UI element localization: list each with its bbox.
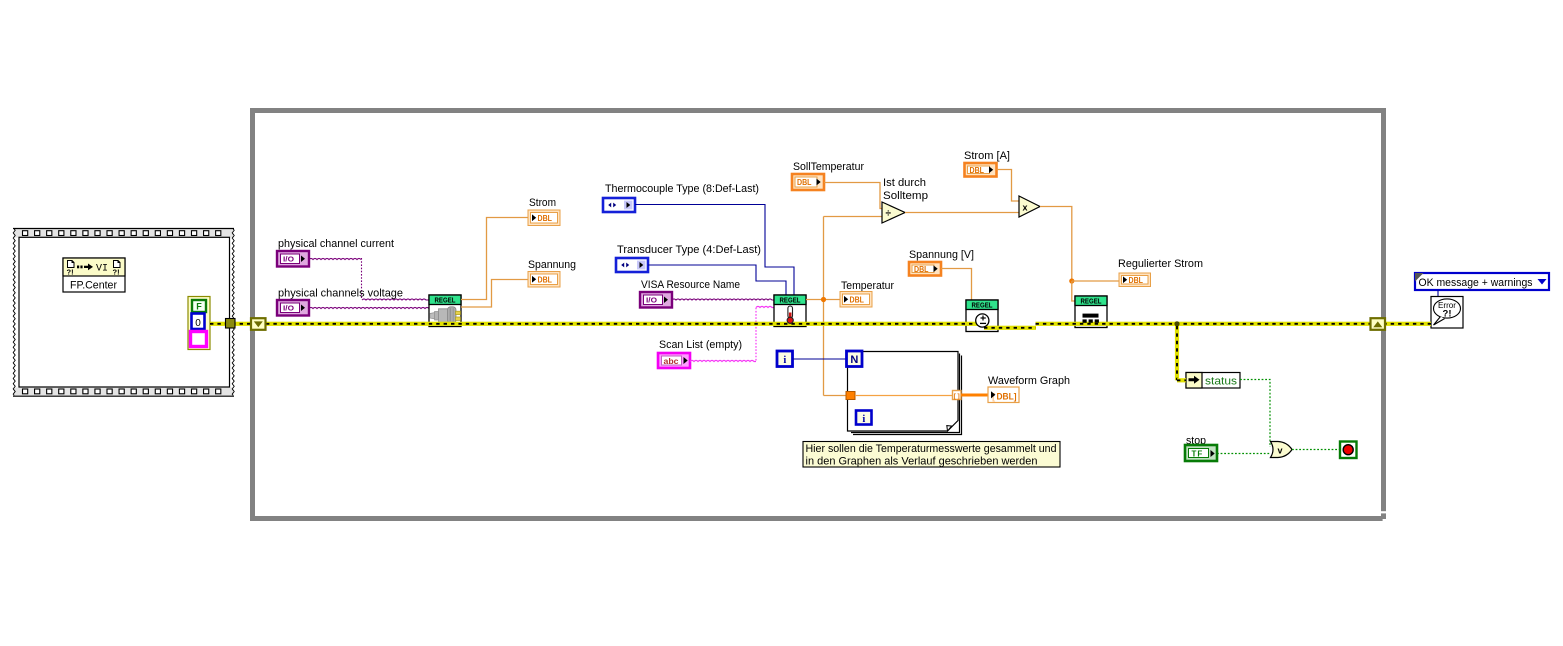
svg-text:?!: ?! xyxy=(1443,309,1452,320)
svg-text:REGEL: REGEL xyxy=(1081,297,1102,306)
error wire segment A (left SR to REGEL U5) xyxy=(266,322,985,326)
wire U4 output to Temperatur (orange) xyxy=(806,299,840,301)
svg-text:physical channels voltage: physical channels voltage xyxy=(278,288,403,300)
svg-text:VI: VI xyxy=(96,264,108,275)
wire physical channels voltage (purple wavy) xyxy=(309,307,429,308)
svg-text:Strom: Strom xyxy=(529,197,556,209)
svg-text:Hier sollen die Temperaturmess: Hier sollen die Temperaturmesswerte gesa… xyxy=(806,443,1057,455)
wire junction down to U6 (orange) xyxy=(1072,281,1075,301)
wire divide output to multiply (orange) xyxy=(905,212,1019,214)
error cluster constant (F, 0, empty string) xyxy=(188,297,210,350)
wire Scan List to U4 (pink wavy) xyxy=(690,306,774,361)
flat sequence structure (filmstrip frame) xyxy=(13,228,234,397)
svg-text:i: i xyxy=(783,355,786,366)
Or gate xyxy=(1271,442,1293,458)
svg-text:Temperatur: Temperatur xyxy=(841,280,894,292)
I/O control VISA Resource Name xyxy=(640,292,672,308)
svg-text:?!: ?! xyxy=(67,268,74,277)
enum control Thermocouple Type xyxy=(603,198,635,212)
svg-text:TF: TF xyxy=(1192,450,1204,459)
for loop count terminal N xyxy=(847,351,863,367)
wire junction to Regulierter Strom (orange) xyxy=(1072,280,1119,282)
svg-text:REGEL: REGEL xyxy=(435,296,456,305)
wire i to N (blue) xyxy=(793,358,847,360)
svg-text:DBL: DBL xyxy=(970,165,985,175)
for loop left tunnel (orange square) xyxy=(846,392,855,400)
svg-text:Ist durch: Ist durch xyxy=(883,177,926,189)
DBL indicator Spannung xyxy=(528,272,560,288)
svg-text:N: N xyxy=(850,354,858,366)
enum constant OK message + warnings xyxy=(1415,273,1549,290)
divide node xyxy=(882,202,905,223)
wire enum to error handler (blue) xyxy=(1437,290,1439,296)
svg-text:x: x xyxy=(1023,202,1028,212)
DBL indicator Temperatur xyxy=(840,292,872,308)
junction node at (823,299) xyxy=(821,297,826,302)
wire physical channel current (purple wavy) xyxy=(309,258,429,300)
subVI U4 REGEL (box) xyxy=(774,295,806,327)
while loop iteration terminal i xyxy=(777,351,793,367)
subVI U3 REGEL (plug icon) xyxy=(429,295,461,327)
subVI U6 icon (dashes) over wire xyxy=(1083,314,1099,323)
wire SollTemperatur to divide (orange) xyxy=(824,183,882,209)
svg-text:Scan List (empty): Scan List (empty) xyxy=(659,339,742,351)
svg-text:Strom [A]: Strom [A] xyxy=(964,150,1010,162)
wire Strom [A] to multiply (orange) xyxy=(997,170,1020,202)
for loop right indexing tunnel xyxy=(953,391,962,400)
svg-text:DBL: DBL xyxy=(797,177,812,187)
string control Scan List xyxy=(658,353,690,368)
wire status to Or gate (green dotted) xyxy=(1217,380,1271,454)
svg-text:Solltemp: Solltemp xyxy=(883,190,928,202)
error wire from cluster to left shift register xyxy=(210,322,253,326)
DBL control Strom [A] xyxy=(965,163,997,177)
wire VISA Resource Name to U4 (purple wavy) xyxy=(672,299,774,300)
wire Transducer Type to U4 (blue) xyxy=(648,265,786,295)
svg-text:Transducer Type (4:Def-Last): Transducer Type (4:Def-Last) xyxy=(617,244,761,256)
svg-text:REGEL: REGEL xyxy=(780,296,801,305)
enum control Transducer Type xyxy=(616,258,648,272)
svg-text:REGEL: REGEL xyxy=(972,301,993,310)
error wire branch down to unbundle xyxy=(1175,326,1179,380)
wire Or gate to loop condition terminal (green dotted) xyxy=(1292,449,1340,451)
svg-text:abc: abc xyxy=(664,357,680,366)
I/O control: physical channel current xyxy=(277,251,309,267)
subVI U4 icon (thermometer) over wire xyxy=(787,306,793,323)
property node U1 FP.Center xyxy=(63,258,125,292)
svg-text:DBL: DBL xyxy=(538,274,553,284)
error wire segment C (to error handler) xyxy=(1036,322,1432,326)
svg-text:Spannung: Spannung xyxy=(528,259,576,271)
svg-text:VISA Resource Name: VISA Resource Name xyxy=(641,279,740,291)
svg-text:I/O: I/O xyxy=(646,296,657,305)
svg-text:i: i xyxy=(862,414,865,425)
svg-text:SollTemperatur: SollTemperatur xyxy=(793,161,864,173)
svg-text:I/O: I/O xyxy=(283,304,294,313)
DBL indicator Regulierter Strom xyxy=(1119,273,1151,287)
svg-text:Waveform Graph: Waveform Graph xyxy=(988,375,1070,387)
svg-text:DBL: DBL xyxy=(850,294,865,304)
comment box xyxy=(803,442,1060,468)
svg-text:Thermocouple Type (8:Def-Last): Thermocouple Type (8:Def-Last) xyxy=(605,183,759,195)
DBL control SollTemperatur xyxy=(792,174,824,190)
sequence tunnel (olive square) xyxy=(226,319,236,329)
svg-text:F: F xyxy=(196,302,202,312)
svg-text:[]: [] xyxy=(953,393,961,400)
loop condition terminal (stop sign) xyxy=(1340,442,1357,459)
svg-text:DBL: DBL xyxy=(914,264,929,274)
svg-text:DBL: DBL xyxy=(1129,275,1144,285)
junction node at (1072,281) xyxy=(1069,278,1074,283)
subVI U5 REGEL (box) xyxy=(966,300,998,332)
svg-text:?!: ?! xyxy=(113,268,120,277)
svg-text:DBL]: DBL] xyxy=(997,391,1017,401)
svg-text:FP.Center: FP.Center xyxy=(70,280,117,292)
array DBL indicator Waveform Graph xyxy=(988,387,1019,403)
unbundle by name: status xyxy=(1186,373,1240,389)
DBL indicator Strom xyxy=(528,210,560,226)
for loop iteration terminal i xyxy=(856,411,872,425)
svg-text:in den Graphen als Verlauf ges: in den Graphen als Verlauf geschrieben w… xyxy=(806,456,1038,468)
simple error handler VI (Error ?! icon) xyxy=(1431,297,1463,329)
svg-text:I/O: I/O xyxy=(283,255,294,264)
wire Spannung [V] to U5 (orange) xyxy=(941,269,972,301)
svg-text:Spannung [V]: Spannung [V] xyxy=(909,249,974,261)
svg-text:v: v xyxy=(1278,445,1283,455)
wire inside for loop (orange) xyxy=(855,395,953,397)
wire vertical trunk x=823 (to divide and for-loop) xyxy=(824,217,883,396)
svg-text:physical channel current: physical channel current xyxy=(278,238,394,250)
for loop frame (stacked pages) xyxy=(853,356,962,435)
junction on error wire (1177,324) xyxy=(1174,321,1179,326)
wire multiply output to junction (orange) xyxy=(1040,207,1072,282)
multiply node xyxy=(1019,196,1040,217)
left shift register (down arrow) xyxy=(251,318,266,330)
right shift register (up arrow) xyxy=(1371,318,1386,330)
svg-text:Regulierter Strom: Regulierter Strom xyxy=(1118,258,1203,270)
wire U3 to Spannung indicator (orange) xyxy=(461,280,528,308)
svg-text:OK message + warnings: OK message + warnings xyxy=(1419,277,1533,289)
while loop border xyxy=(253,111,1387,522)
array wire to Waveform Graph (thick orange) xyxy=(961,394,988,397)
I/O control: physical channels voltage xyxy=(277,300,309,316)
svg-text:÷: ÷ xyxy=(886,208,892,219)
svg-text:DBL: DBL xyxy=(538,213,553,223)
subVI U5 icon (charge circle) over wire xyxy=(976,314,989,327)
TF boolean control stop xyxy=(1185,445,1217,461)
wire U3 to Strom indicator (orange) xyxy=(461,218,528,300)
DBL control Spannung [V] xyxy=(909,262,941,276)
wire Thermocouple Type to U4 (blue) xyxy=(635,205,794,295)
svg-text:status: status xyxy=(1205,376,1238,388)
svg-text:0: 0 xyxy=(195,318,201,329)
subVI U6 REGEL (box) xyxy=(1075,296,1107,328)
error wire jog after REGEL U5 xyxy=(984,326,1036,330)
